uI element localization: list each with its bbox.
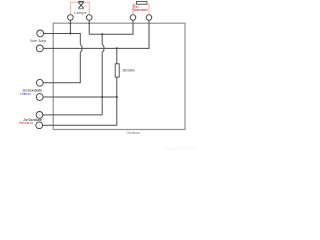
wire (43, 52, 80, 82)
lamp selection box (red) (70, 2, 89, 15)
svg-text:Links-In: Links-In (20, 92, 31, 96)
junction node (116, 47, 118, 49)
wire W1 from terminal X1 to lamp and X3 (44, 34, 81, 45)
terminal X2 (36, 45, 43, 52)
terminal X6 (36, 122, 43, 129)
junction node on chassis (88, 22, 90, 24)
chassis net Gehäuse (enclosure rectangle) (53, 23, 185, 129)
wire hop over W2 at x=102.2 (102, 44, 104, 52)
lamp terminal pin right (86, 15, 92, 21)
svg-text:Lampe.: Lampe. (74, 11, 88, 15)
svg-text:Rechts-In: Rechts-In (19, 121, 33, 125)
terminal X1 (37, 30, 44, 37)
junction node on chassis (70, 22, 72, 24)
svg-text:Widerstand: Widerstand (132, 8, 148, 12)
wire W4 terminal X4 to resistor bottom net (43, 96, 117, 98)
Rel.-Widerstand selection box (red) (133, 4, 149, 15)
terminal X5 (36, 112, 43, 119)
junction node (69, 32, 71, 34)
junction node (116, 96, 118, 98)
svg-text:Gehäuse: Gehäuse (127, 131, 141, 135)
wire W5 terminal X5 (43, 114, 102, 116)
svg-text:100 Ohm: 100 Ohm (122, 69, 134, 73)
wire W3 lamp right branch (88, 20, 90, 34)
wire (101, 52, 103, 115)
junction node (101, 33, 103, 35)
lamp symbol (78, 1, 84, 9)
svg-text:Vom Amp: Vom Amp (30, 39, 46, 43)
lamp terminal pin left (68, 15, 74, 21)
wire vertical from node down (101, 34, 103, 44)
junction node (101, 96, 103, 98)
wire (89, 20, 133, 34)
svg-text:ImageShack: ImageShack (164, 146, 198, 152)
resistor R1 body (115, 64, 119, 77)
wire W6 terminal X6 to resistor bottom (43, 77, 117, 125)
wire hop over W2 at x=80.3 (80, 44, 82, 52)
resistor terminal pin left (130, 15, 136, 21)
terminal X3 (36, 79, 43, 86)
resistor terminal pin right (146, 15, 152, 21)
wire W2 terminal X2 to Rel. resistor right (43, 20, 149, 48)
wire stub lamp left (69, 20, 71, 33)
wire resistor top lead (116, 48, 118, 63)
resistor R2 body (136, 1, 147, 4)
terminal X4 (36, 94, 43, 101)
